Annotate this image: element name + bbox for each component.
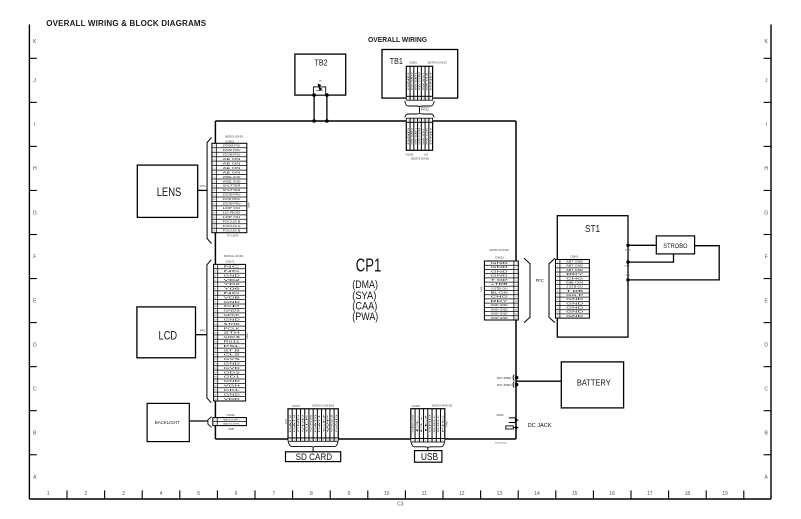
svg-text:4: 4 xyxy=(557,274,558,276)
svg-text:GND: GND xyxy=(491,267,509,269)
svg-text:1: 1 xyxy=(557,262,558,264)
svg-text:DAT2: DAT2 xyxy=(289,412,292,432)
svg-text:VDB: VDB xyxy=(224,297,242,299)
svg-text:6: 6 xyxy=(426,120,427,122)
wire TB2 to top bus (2 lines + junction dots) xyxy=(312,93,328,123)
svg-text:6: 6 xyxy=(311,439,312,441)
connector CN841 (on ST1 left edge) xyxy=(556,254,590,318)
svg-text:ABT GND: ABT GND xyxy=(566,261,584,264)
svg-text:18: 18 xyxy=(215,341,217,343)
svg-text:VBUS: VBUS xyxy=(413,413,415,433)
svg-text:DMA: DMA xyxy=(247,202,250,207)
svg-text:FOCUS B: FOCUS B xyxy=(223,230,241,232)
svg-text:5: 5 xyxy=(214,163,215,165)
svg-text:PWB: PWB xyxy=(446,421,448,426)
block TB1 xyxy=(382,50,458,99)
svg-text:FOCUS B: FOCUS B xyxy=(223,222,241,224)
svg-text:CKL: CKL xyxy=(224,390,243,392)
svg-text:STRB: STRB xyxy=(625,250,631,252)
svg-text:14: 14 xyxy=(215,324,217,326)
svg-text:12: 12 xyxy=(335,439,337,441)
block SD CARD xyxy=(286,442,341,462)
svg-text:AE ON: AE ON xyxy=(223,167,242,170)
svg-text:GND: GND xyxy=(224,302,241,304)
svg-text:GG P: GG P xyxy=(566,295,584,297)
svg-text:22: 22 xyxy=(215,359,217,361)
svg-text:7: 7 xyxy=(430,98,431,100)
svg-text:4: 4 xyxy=(215,280,216,282)
svg-text:ZOOM PIOU: ZOOM PIOU xyxy=(223,150,241,152)
block LENS xyxy=(137,165,197,217)
svg-text:SW COM: SW COM xyxy=(419,128,421,145)
svg-text:VDD: VDD xyxy=(224,399,241,401)
svg-text:BACKLIGHT: BACKLIGHT xyxy=(155,420,180,426)
svg-text:16: 16 xyxy=(213,213,215,215)
svg-text:17: 17 xyxy=(647,491,653,497)
svg-text:15: 15 xyxy=(215,328,217,330)
FFC cable between CN501 and CN841 xyxy=(524,258,555,323)
svg-text:06CRC4+ 1R3-B2: 06CRC4+ 1R3-B2 xyxy=(224,255,244,258)
svg-text:GND: GND xyxy=(408,71,410,91)
svg-text:DMA: DMA xyxy=(246,333,249,338)
svg-text:C: C xyxy=(33,386,37,392)
svg-text:11: 11 xyxy=(215,311,217,313)
svg-text:STH: STH xyxy=(224,333,241,335)
svg-text:G: G xyxy=(764,210,768,216)
svg-text:D-: D- xyxy=(417,412,419,432)
svg-text:C3: C3 xyxy=(397,501,404,507)
svg-text:SW CLK: SW CLK xyxy=(427,71,429,90)
svg-text:SW RST: SW RST xyxy=(423,71,425,90)
svg-text:NC: NC xyxy=(224,267,242,269)
svg-text:10: 10 xyxy=(515,301,517,303)
svg-text:10: 10 xyxy=(384,491,390,497)
svg-text:10: 10 xyxy=(215,306,217,308)
svg-text:5: 5 xyxy=(423,120,424,122)
wire strobo 1 xyxy=(628,244,656,246)
svg-text:AE ON: AE ON xyxy=(223,158,242,161)
connector CN171 (LCD, on CP1 left edge) xyxy=(214,255,250,401)
svg-text:2: 2 xyxy=(215,271,216,273)
svg-text:D: D xyxy=(764,342,768,348)
svg-text:30: 30 xyxy=(215,394,217,396)
connector CN701 (SD card, on CP1 bottom bus) xyxy=(284,404,338,441)
svg-text:6: 6 xyxy=(215,289,216,291)
svg-text:FFC: FFC xyxy=(536,278,544,283)
svg-text:4: 4 xyxy=(425,440,426,442)
svg-text:VSS: VSS xyxy=(311,412,313,432)
svg-text:J STB OU: J STB OU xyxy=(491,288,509,290)
block BATTERY xyxy=(561,362,623,408)
svg-text:ZOOM PROU: ZOOM PROU xyxy=(223,199,241,201)
connector CN201 (on CP1 top bus) xyxy=(406,118,433,160)
svg-text:1: 1 xyxy=(408,98,409,100)
connector CN851 (lens, on CP1 left edge) xyxy=(212,136,250,238)
svg-text:BATTERY: BATTERY xyxy=(577,378,611,388)
svg-text:1: 1 xyxy=(214,146,215,148)
svg-text:06CRC4 S24-B2: 06CRC4 S24-B2 xyxy=(411,158,429,161)
svg-text:4: 4 xyxy=(160,491,163,497)
svg-text:CN851: CN851 xyxy=(409,60,418,64)
svg-text:JK801: JK801 xyxy=(496,413,504,417)
svg-text:VGH: VGH xyxy=(224,386,241,388)
svg-text:ST B: ST B xyxy=(224,350,242,352)
svg-text:4: 4 xyxy=(419,120,420,122)
block TB2 xyxy=(295,54,346,95)
svg-text:12: 12 xyxy=(213,195,215,197)
svg-text:GND: GND xyxy=(491,263,509,265)
svg-text:8: 8 xyxy=(442,440,443,442)
svg-text:GND: GND xyxy=(224,364,241,366)
svg-text:ST1: ST1 xyxy=(585,223,600,235)
svg-text:GND: GND xyxy=(491,271,509,273)
svg-text:13: 13 xyxy=(215,319,217,321)
svg-text:12: 12 xyxy=(215,315,217,317)
svg-text:27: 27 xyxy=(215,381,217,383)
svg-text:SHUTTER: SHUTTER xyxy=(223,186,241,188)
svg-text:SW DAT2: SW DAT2 xyxy=(411,71,414,91)
svg-text:STRB: STRB xyxy=(624,265,630,267)
svg-text:1: 1 xyxy=(516,263,517,265)
svg-text:14: 14 xyxy=(515,318,517,320)
svg-text:8: 8 xyxy=(215,297,216,299)
svg-text:6: 6 xyxy=(214,168,215,170)
svg-text:ZOOM PRU: ZOOM PRU xyxy=(223,204,241,206)
svg-text:SW CLK: SW CLK xyxy=(427,127,429,145)
svg-text:17: 17 xyxy=(213,217,215,219)
svg-text:3: 3 xyxy=(215,275,216,277)
svg-text:3: 3 xyxy=(421,440,422,442)
svg-text:SW DAT1: SW DAT1 xyxy=(414,71,417,91)
svg-text:16: 16 xyxy=(609,491,615,497)
svg-text:GND: GND xyxy=(566,316,584,318)
svg-text:GND GND: GND GND xyxy=(491,305,509,307)
svg-text:20: 20 xyxy=(213,230,215,232)
block STROBO xyxy=(656,236,694,254)
svg-text:1: 1 xyxy=(290,439,291,441)
wire strobo 3 xyxy=(628,246,719,280)
svg-text:31: 31 xyxy=(215,399,217,401)
svg-text:LDP OU: LDP OU xyxy=(223,217,241,219)
block LCD xyxy=(137,307,196,358)
svg-text:10: 10 xyxy=(557,299,559,301)
svg-text:14: 14 xyxy=(557,316,559,318)
svg-text:NC: NC xyxy=(224,271,242,273)
svg-text:GND: GND xyxy=(430,126,432,144)
svg-text:2: 2 xyxy=(417,440,418,442)
svg-text:7: 7 xyxy=(557,287,558,289)
svg-text:TB1: TB1 xyxy=(390,57,404,66)
svg-text:H: H xyxy=(764,166,768,172)
svg-text:5: 5 xyxy=(215,284,216,286)
svg-text:6: 6 xyxy=(235,491,238,497)
svg-text:GND: GND xyxy=(336,413,338,432)
svg-text:1: 1 xyxy=(215,419,216,421)
svg-text:GND: GND xyxy=(491,276,509,278)
svg-text:4: 4 xyxy=(214,159,215,161)
svg-text:BL ON: BL ON xyxy=(491,293,509,295)
svg-text:4: 4 xyxy=(516,276,517,278)
svg-text:VSS2: VSS2 xyxy=(332,412,334,432)
svg-text:06CRC4 S24-B2: 06CRC4 S24-B2 xyxy=(225,136,243,139)
svg-text:GND GND: GND GND xyxy=(491,309,509,311)
svg-text:WIDE GND: WIDE GND xyxy=(223,181,241,183)
wire LENS FPC lead xyxy=(198,184,207,190)
block ST1 xyxy=(557,216,628,337)
svg-text:7: 7 xyxy=(272,491,275,497)
svg-text:3: 3 xyxy=(557,270,558,272)
svg-text:06CRC4 KU-B-B2: 06CRC4 KU-B-B2 xyxy=(489,249,509,252)
svg-text:3: 3 xyxy=(298,439,299,441)
svg-text:+TRB: +TRB xyxy=(491,284,509,286)
dc jack JK801 xyxy=(495,413,552,444)
svg-text:6: 6 xyxy=(426,98,427,100)
svg-text:CP1: CP1 xyxy=(356,254,382,275)
svg-text:13: 13 xyxy=(557,312,559,314)
svg-text:GND5: GND5 xyxy=(224,311,242,313)
svg-text:SHUTTER: SHUTTER xyxy=(223,190,241,192)
svg-text:8: 8 xyxy=(214,177,215,179)
connector M801 inside TB2 xyxy=(313,81,325,96)
svg-text:TO LENS: TO LENS xyxy=(227,234,239,238)
svg-text:C: C xyxy=(764,386,768,392)
svg-text:GND: GND xyxy=(566,299,584,301)
FPC cable bracket (lens) xyxy=(207,138,212,244)
svg-text:ABT GND: ABT GND xyxy=(566,265,584,268)
svg-text:11: 11 xyxy=(422,491,427,497)
svg-text:GD1: GD1 xyxy=(224,377,243,379)
svg-text:CN201: CN201 xyxy=(406,153,415,157)
svg-text:NC: NC xyxy=(224,293,242,295)
svg-text:CN841: CN841 xyxy=(570,254,579,258)
svg-text:2: 2 xyxy=(411,120,412,122)
svg-text:1: 1 xyxy=(215,267,216,269)
svg-text:J STB OU: J STB OU xyxy=(566,287,584,289)
svg-text:SD CARD: SD CARD xyxy=(296,452,333,462)
svg-text:LD ROD: LD ROD xyxy=(223,213,241,215)
svg-text:9: 9 xyxy=(348,491,351,497)
svg-text:FFC: FFC xyxy=(421,106,429,111)
svg-text:DC JACK: DC JACK xyxy=(528,423,552,429)
svg-text:2: 2 xyxy=(215,423,216,425)
svg-text:5: 5 xyxy=(197,491,200,497)
svg-text:CN501: CN501 xyxy=(495,256,504,260)
svg-text:G: G xyxy=(33,210,37,216)
svg-text:GND: GND xyxy=(224,381,241,383)
svg-text:CLK: CLK xyxy=(307,412,309,432)
wire strobo 2 xyxy=(628,254,674,262)
svg-text:Y06: Y06 xyxy=(224,289,243,291)
svg-text:5: 5 xyxy=(429,440,430,442)
svg-text:7: 7 xyxy=(430,120,431,122)
svg-text:29: 29 xyxy=(215,390,217,392)
svg-text:TB2: TB2 xyxy=(315,59,329,68)
svg-text:06CRC4+ S1B-B-B2: 06CRC4+ S1B-B-B2 xyxy=(312,405,335,408)
svg-text:YD2: YD2 xyxy=(224,284,243,286)
svg-text:SHELL: SHELL xyxy=(438,412,440,432)
svg-text:15: 15 xyxy=(572,491,578,497)
svg-text:PWB: PWB xyxy=(228,428,234,431)
svg-text:PSL: PSL xyxy=(224,346,243,348)
svg-text:1: 1 xyxy=(412,440,413,442)
svg-text:I: I xyxy=(34,122,35,128)
svg-text:3: 3 xyxy=(415,120,416,122)
svg-text:1: 1 xyxy=(47,491,50,497)
svg-text:AE ON: AE ON xyxy=(223,171,242,174)
svg-text:BACKLIGHT+: BACKLIGHT+ xyxy=(223,418,241,421)
svg-text:CP: CP xyxy=(224,306,243,308)
svg-text:BAT-JM801: BAT-JM801 xyxy=(497,376,512,380)
svg-text:GND: GND xyxy=(566,312,584,314)
svg-text:DB ON: DB ON xyxy=(566,282,584,284)
svg-text:11: 11 xyxy=(331,439,333,441)
svg-text:2: 2 xyxy=(411,98,412,100)
block BACKLIGHT xyxy=(147,403,189,441)
svg-text:WIDE GND: WIDE GND xyxy=(223,177,241,179)
svg-text:26: 26 xyxy=(215,377,217,379)
wire battery to CP1 xyxy=(516,380,561,382)
svg-text:PCLK: PCLK xyxy=(224,328,241,330)
svg-text:DAT3: DAT3 xyxy=(293,412,296,432)
svg-text:15: 15 xyxy=(213,208,215,210)
svg-text:CN105: CN105 xyxy=(412,404,421,408)
svg-text:20: 20 xyxy=(215,350,217,352)
svg-text:VDD: VDD xyxy=(302,413,304,432)
svg-text:7: 7 xyxy=(516,288,517,290)
svg-text:SHELL: SHELL xyxy=(434,412,436,432)
svg-text:2: 2 xyxy=(214,150,215,152)
svg-text:21: 21 xyxy=(215,355,217,357)
svg-text:3: 3 xyxy=(415,98,416,100)
svg-text:25: 25 xyxy=(215,372,217,374)
connector CN105 (USB, on CP1 bottom bus) xyxy=(411,404,453,442)
svg-text:CHG: CHG xyxy=(566,278,584,280)
svg-text:6: 6 xyxy=(434,440,435,442)
svg-text:17: 17 xyxy=(215,337,217,339)
svg-text:FFC: FFC xyxy=(200,329,205,333)
svg-text:2: 2 xyxy=(557,266,558,268)
svg-text:23: 23 xyxy=(215,364,217,366)
svg-text:3: 3 xyxy=(122,491,125,497)
svg-text:GND: GND xyxy=(224,319,241,321)
svg-text:TRIG: TRIG xyxy=(625,275,630,277)
connector CN851 (inside TB1) xyxy=(406,60,447,100)
svg-text:VD2: VD2 xyxy=(224,280,243,282)
svg-text:BAT-JM802: BAT-JM802 xyxy=(497,383,512,387)
svg-text:GND: GND xyxy=(430,71,432,91)
svg-text:GD2: GD2 xyxy=(224,372,243,374)
svg-text:06CRC4 4R-B7-B2: 06CRC4 4R-B7-B2 xyxy=(432,405,453,408)
svg-text:USB: USB xyxy=(421,452,439,463)
svg-text:ZOOM PIU: ZOOM PIU xyxy=(223,146,241,148)
svg-text:12: 12 xyxy=(557,308,559,310)
svg-text:GND: GND xyxy=(224,275,241,277)
svg-text:7: 7 xyxy=(438,440,439,442)
svg-text:2: 2 xyxy=(84,491,87,497)
svg-text:GND B: GND B xyxy=(224,337,241,339)
svg-text:CD: CD xyxy=(323,412,325,432)
svg-text:5: 5 xyxy=(306,439,307,441)
svg-text:T RB: T RB xyxy=(566,291,585,293)
svg-text:GND: GND xyxy=(408,126,410,144)
svg-text:18: 18 xyxy=(685,491,691,497)
svg-text:4: 4 xyxy=(419,98,420,100)
svg-text:GPCK: GPCK xyxy=(224,315,241,317)
svg-text:F: F xyxy=(765,254,768,260)
svg-text:19: 19 xyxy=(215,346,217,348)
svg-text:SW COM: SW COM xyxy=(419,72,421,90)
svg-text:DAT1: DAT1 xyxy=(318,412,321,432)
svg-text:FOCUS A: FOCUS A xyxy=(223,225,242,228)
svg-text:1: 1 xyxy=(408,120,409,122)
svg-text:14: 14 xyxy=(213,204,215,206)
svg-text:8: 8 xyxy=(319,439,320,441)
FFC cable between CN851 and CN201 xyxy=(405,101,434,118)
svg-text:19: 19 xyxy=(213,226,215,228)
strobo terminals on ST1 right edge xyxy=(624,244,631,282)
svg-text:GND: GND xyxy=(566,303,584,305)
svg-text:19: 19 xyxy=(722,491,728,497)
svg-text:GND: GND xyxy=(430,413,432,433)
svg-text:3: 3 xyxy=(214,154,215,156)
svg-text:RDY: RDY xyxy=(491,301,510,303)
svg-text:3: 3 xyxy=(516,271,517,273)
svg-text:GND: GND xyxy=(224,394,241,396)
svg-text:CHG: CHG xyxy=(491,297,509,299)
svg-text:SW DAT2: SW DAT2 xyxy=(411,126,414,144)
svg-text:28: 28 xyxy=(215,386,217,388)
svg-text:GND GND: GND GND xyxy=(491,314,509,316)
svg-text:T OP: T OP xyxy=(491,280,510,282)
svg-text:18: 18 xyxy=(213,222,215,224)
svg-text:7: 7 xyxy=(315,439,316,441)
svg-text:13: 13 xyxy=(515,314,517,316)
svg-text:7: 7 xyxy=(215,293,216,295)
svg-text:CN701: CN701 xyxy=(292,404,301,408)
svg-text:AE ON: AE ON xyxy=(223,162,242,165)
svg-text:LCD: LCD xyxy=(159,330,178,342)
svg-text:DMA: DMA xyxy=(284,419,287,424)
svg-text:12: 12 xyxy=(515,309,517,311)
wire backlight lead xyxy=(189,420,207,422)
svg-text:BACKLIGHT-: BACKLIGHT- xyxy=(223,422,240,425)
svg-text:R011: R011 xyxy=(224,341,242,343)
svg-text:13: 13 xyxy=(213,199,215,201)
svg-text:4: 4 xyxy=(302,439,303,441)
svg-text:(PWA): (PWA) xyxy=(352,311,378,323)
svg-text:STHR: STHR xyxy=(224,324,241,326)
svg-text:9: 9 xyxy=(214,181,215,183)
battery contacts BAT-JM801 / BAT-JM802 xyxy=(497,375,518,388)
svg-text:5: 5 xyxy=(516,280,517,282)
svg-text:NC: NC xyxy=(442,412,444,433)
svg-text:10: 10 xyxy=(213,186,215,188)
board CP1 outline (top bus / left edge / right edge / bottom bus) xyxy=(215,121,516,439)
svg-text:CN601: CN601 xyxy=(227,413,236,417)
svg-text:9: 9 xyxy=(323,439,324,441)
svg-text:D: D xyxy=(33,342,37,348)
svg-text:6: 6 xyxy=(516,284,517,286)
svg-text:B-270-373-B: B-270-373-B xyxy=(495,442,507,444)
svg-text:CN171: CN171 xyxy=(226,260,235,264)
svg-text:13: 13 xyxy=(497,491,503,497)
svg-text:8: 8 xyxy=(557,291,558,293)
svg-text:FPC: FPC xyxy=(200,184,206,188)
svg-text:ZOOM PRU: ZOOM PRU xyxy=(223,195,241,197)
svg-text:DA: DA xyxy=(425,154,429,157)
svg-text:9: 9 xyxy=(557,295,558,297)
svg-text:GVD: GVD xyxy=(224,368,241,370)
